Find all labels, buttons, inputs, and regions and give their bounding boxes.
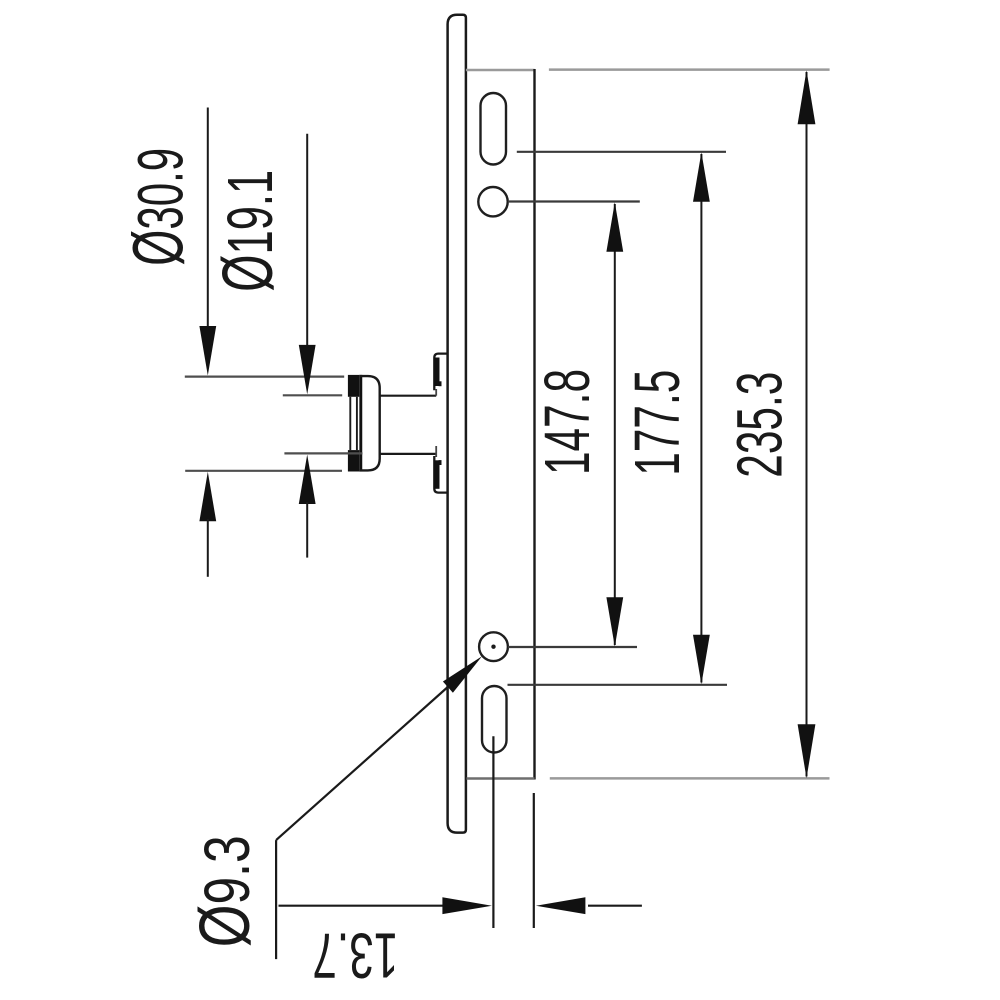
dim 147.8 top arrow (606, 202, 623, 252)
knob neck top line (380, 395, 437, 397)
rail plate (tall thin vertical plate, rounded left corners) (448, 15, 466, 833)
top hook tab outline (434, 354, 448, 391)
wall bracket top edge (466, 69, 535, 71)
dim 147.8 line (614, 204, 616, 645)
bottom hole circle (479, 632, 508, 661)
dim Ø19.1 lower arrow (299, 455, 316, 505)
dim 235.3 top arrow (798, 70, 816, 124)
dim 13.7 right line (588, 905, 642, 907)
dim 177.5 extension line bottom (from bottom slot) (508, 684, 728, 686)
top hook tab nub (439, 381, 442, 386)
dim Ø19.1 upper arrow (299, 345, 316, 395)
dim Ø30.9 line lower tail (207, 519, 209, 577)
dim Ø19.1 line lower tail (306, 502, 308, 558)
dim 177.5 line (700, 154, 702, 683)
dim Ø30.9 upper arrow (199, 326, 216, 376)
bottom hook connector line (435, 446, 437, 457)
dim 177.5 bottom arrow (693, 635, 710, 685)
dim Ø30.9 extension line top (185, 376, 344, 378)
dim 13.7 extension line slot-center (492, 736, 494, 928)
svg-text:177.5: 177.5 (621, 370, 693, 476)
wall bracket bottom edge (467, 777, 535, 779)
svg-text:Ø19.1: Ø19.1 (209, 170, 288, 292)
dim Ø30.9 line upper (207, 108, 209, 331)
svg-text:235.3: 235.3 (724, 372, 796, 478)
knob washer lower black bar (348, 450, 359, 471)
leader Ø9.3 arrowhead (443, 656, 482, 692)
bottom hook tab black bar (434, 460, 439, 489)
dim Ø30.9 lower arrow (199, 472, 216, 522)
dim 13.7 left arrow (442, 897, 492, 914)
knob flange outline (359, 376, 379, 470)
leader Ø9.3 diagonal segment (276, 685, 450, 840)
knob washer right mid line (356, 397, 358, 450)
knob washer upper black bar (348, 375, 359, 397)
svg-text:147.8: 147.8 (531, 369, 603, 475)
dim 235.3 bottom arrow (798, 724, 816, 778)
dim 13.7 left line (279, 905, 446, 907)
dim Ø19.1 extension line top (283, 394, 342, 396)
svg-text:13.7: 13.7 (312, 920, 398, 992)
dim 147.8 extension line top (from top circle) (508, 200, 640, 202)
top hook tab black bar (434, 358, 439, 387)
dim 13.7 right arrow (536, 897, 586, 914)
bottom hole center dot (491, 645, 495, 649)
dim 177.5 top arrow (693, 152, 710, 202)
bottom hook tab outline (434, 456, 448, 493)
leader Ø9.3 vertical segment (275, 840, 277, 959)
top hook connector line (435, 389, 437, 396)
bottom slot (482, 686, 507, 753)
dim 235.3 extension line bottom (550, 777, 830, 780)
dim Ø19.1 extension line bottom (284, 452, 362, 454)
svg-text:Ø30.9: Ø30.9 (119, 148, 198, 266)
knob flange left face heavy line (359, 375, 362, 472)
bottom hook tab nub (439, 460, 442, 465)
dim 13.7 extension line bracket-edge (533, 793, 535, 928)
dim 147.8 extension line bottom (from bottom circle) (508, 646, 637, 648)
dim 235.3 extension line top (549, 68, 830, 71)
top hole circle (478, 187, 507, 216)
svg-text:Ø9.3: Ø9.3 (186, 835, 265, 947)
knob washer left mid line (349, 397, 351, 450)
dim Ø19.1 line upper (306, 134, 308, 348)
dim 147.8 bottom arrow (606, 597, 623, 647)
top slot (481, 93, 507, 165)
dim 177.5 extension line top (from top slot) (517, 151, 726, 153)
wall bracket right edge (533, 69, 535, 780)
dim 235.3 line (806, 72, 808, 777)
knob neck bottom line (380, 453, 437, 455)
dim Ø30.9 extension line bottom (185, 470, 342, 472)
